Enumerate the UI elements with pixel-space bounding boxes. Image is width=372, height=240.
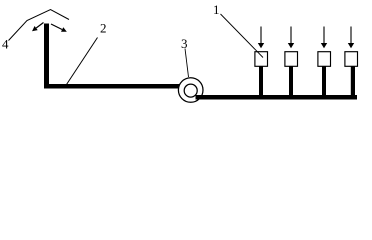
sprinkler riser pipe (44, 24, 49, 89)
emitter unit 4: emitter box (345, 52, 358, 67)
emitter unit 3: emitter box (318, 52, 331, 67)
emitter unit 1: flow arrow (258, 27, 264, 49)
leader line to pipe (label 2) (67, 38, 98, 85)
emitter unit 2: riser stub (289, 64, 293, 96)
emitter unit 1: emitter box (255, 52, 268, 67)
emitter unit 1: riser stub (259, 64, 263, 96)
svg-text:2: 2 (100, 21, 107, 36)
svg-text:3: 3 (181, 36, 188, 51)
svg-text:4: 4 (2, 37, 9, 52)
leader line to sprinkler (label 4) and spray trajectory arc (9, 10, 70, 41)
sprinkler right spray arrow (51, 24, 67, 32)
sprinkler left spray arrow (32, 23, 44, 32)
leader line to emitter (label 1) (221, 14, 264, 58)
emitter unit 3: flow arrow (321, 27, 327, 49)
emitter unit 4: flow arrow (348, 27, 354, 49)
main supply pipe (left, label 2) (44, 84, 180, 89)
leader line to pump (label 3) (185, 49, 189, 78)
pump outer circle (label 3) (178, 78, 203, 103)
pump inner circle (184, 84, 197, 97)
emitter unit 4: riser stub (351, 64, 355, 96)
distribution pipe (right) (196, 95, 358, 100)
svg-text:1: 1 (213, 2, 220, 17)
emitter unit 3: riser stub (322, 64, 326, 96)
emitter unit 2: emitter box (285, 52, 298, 67)
emitter unit 2: flow arrow (288, 27, 294, 49)
